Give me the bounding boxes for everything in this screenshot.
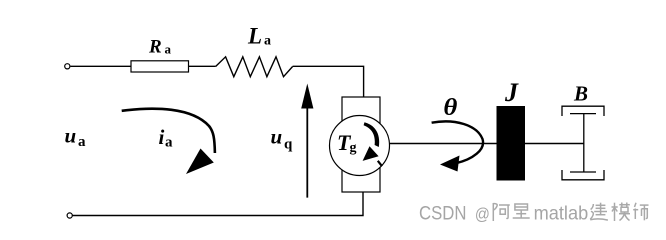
svg-text:i: i [159,125,165,149]
svg-text:q: q [284,137,293,153]
svg-text:B: B [573,82,588,106]
svg-text:a: a [165,42,172,57]
svg-text:a: a [78,134,86,150]
svg-text:matlab: matlab [534,203,589,225]
svg-text:R: R [148,37,162,58]
svg-text:a: a [165,135,173,151]
svg-text:L: L [247,24,262,49]
svg-text:J: J [504,78,519,107]
svg-text:u: u [271,125,283,149]
svg-text:g: g [350,141,357,156]
svg-text:u: u [65,124,77,148]
svg-text:θ: θ [443,93,457,120]
svg-text:@: @ [475,205,490,224]
svg-text:CSDN: CSDN [419,203,467,225]
svg-text:a: a [264,34,271,49]
